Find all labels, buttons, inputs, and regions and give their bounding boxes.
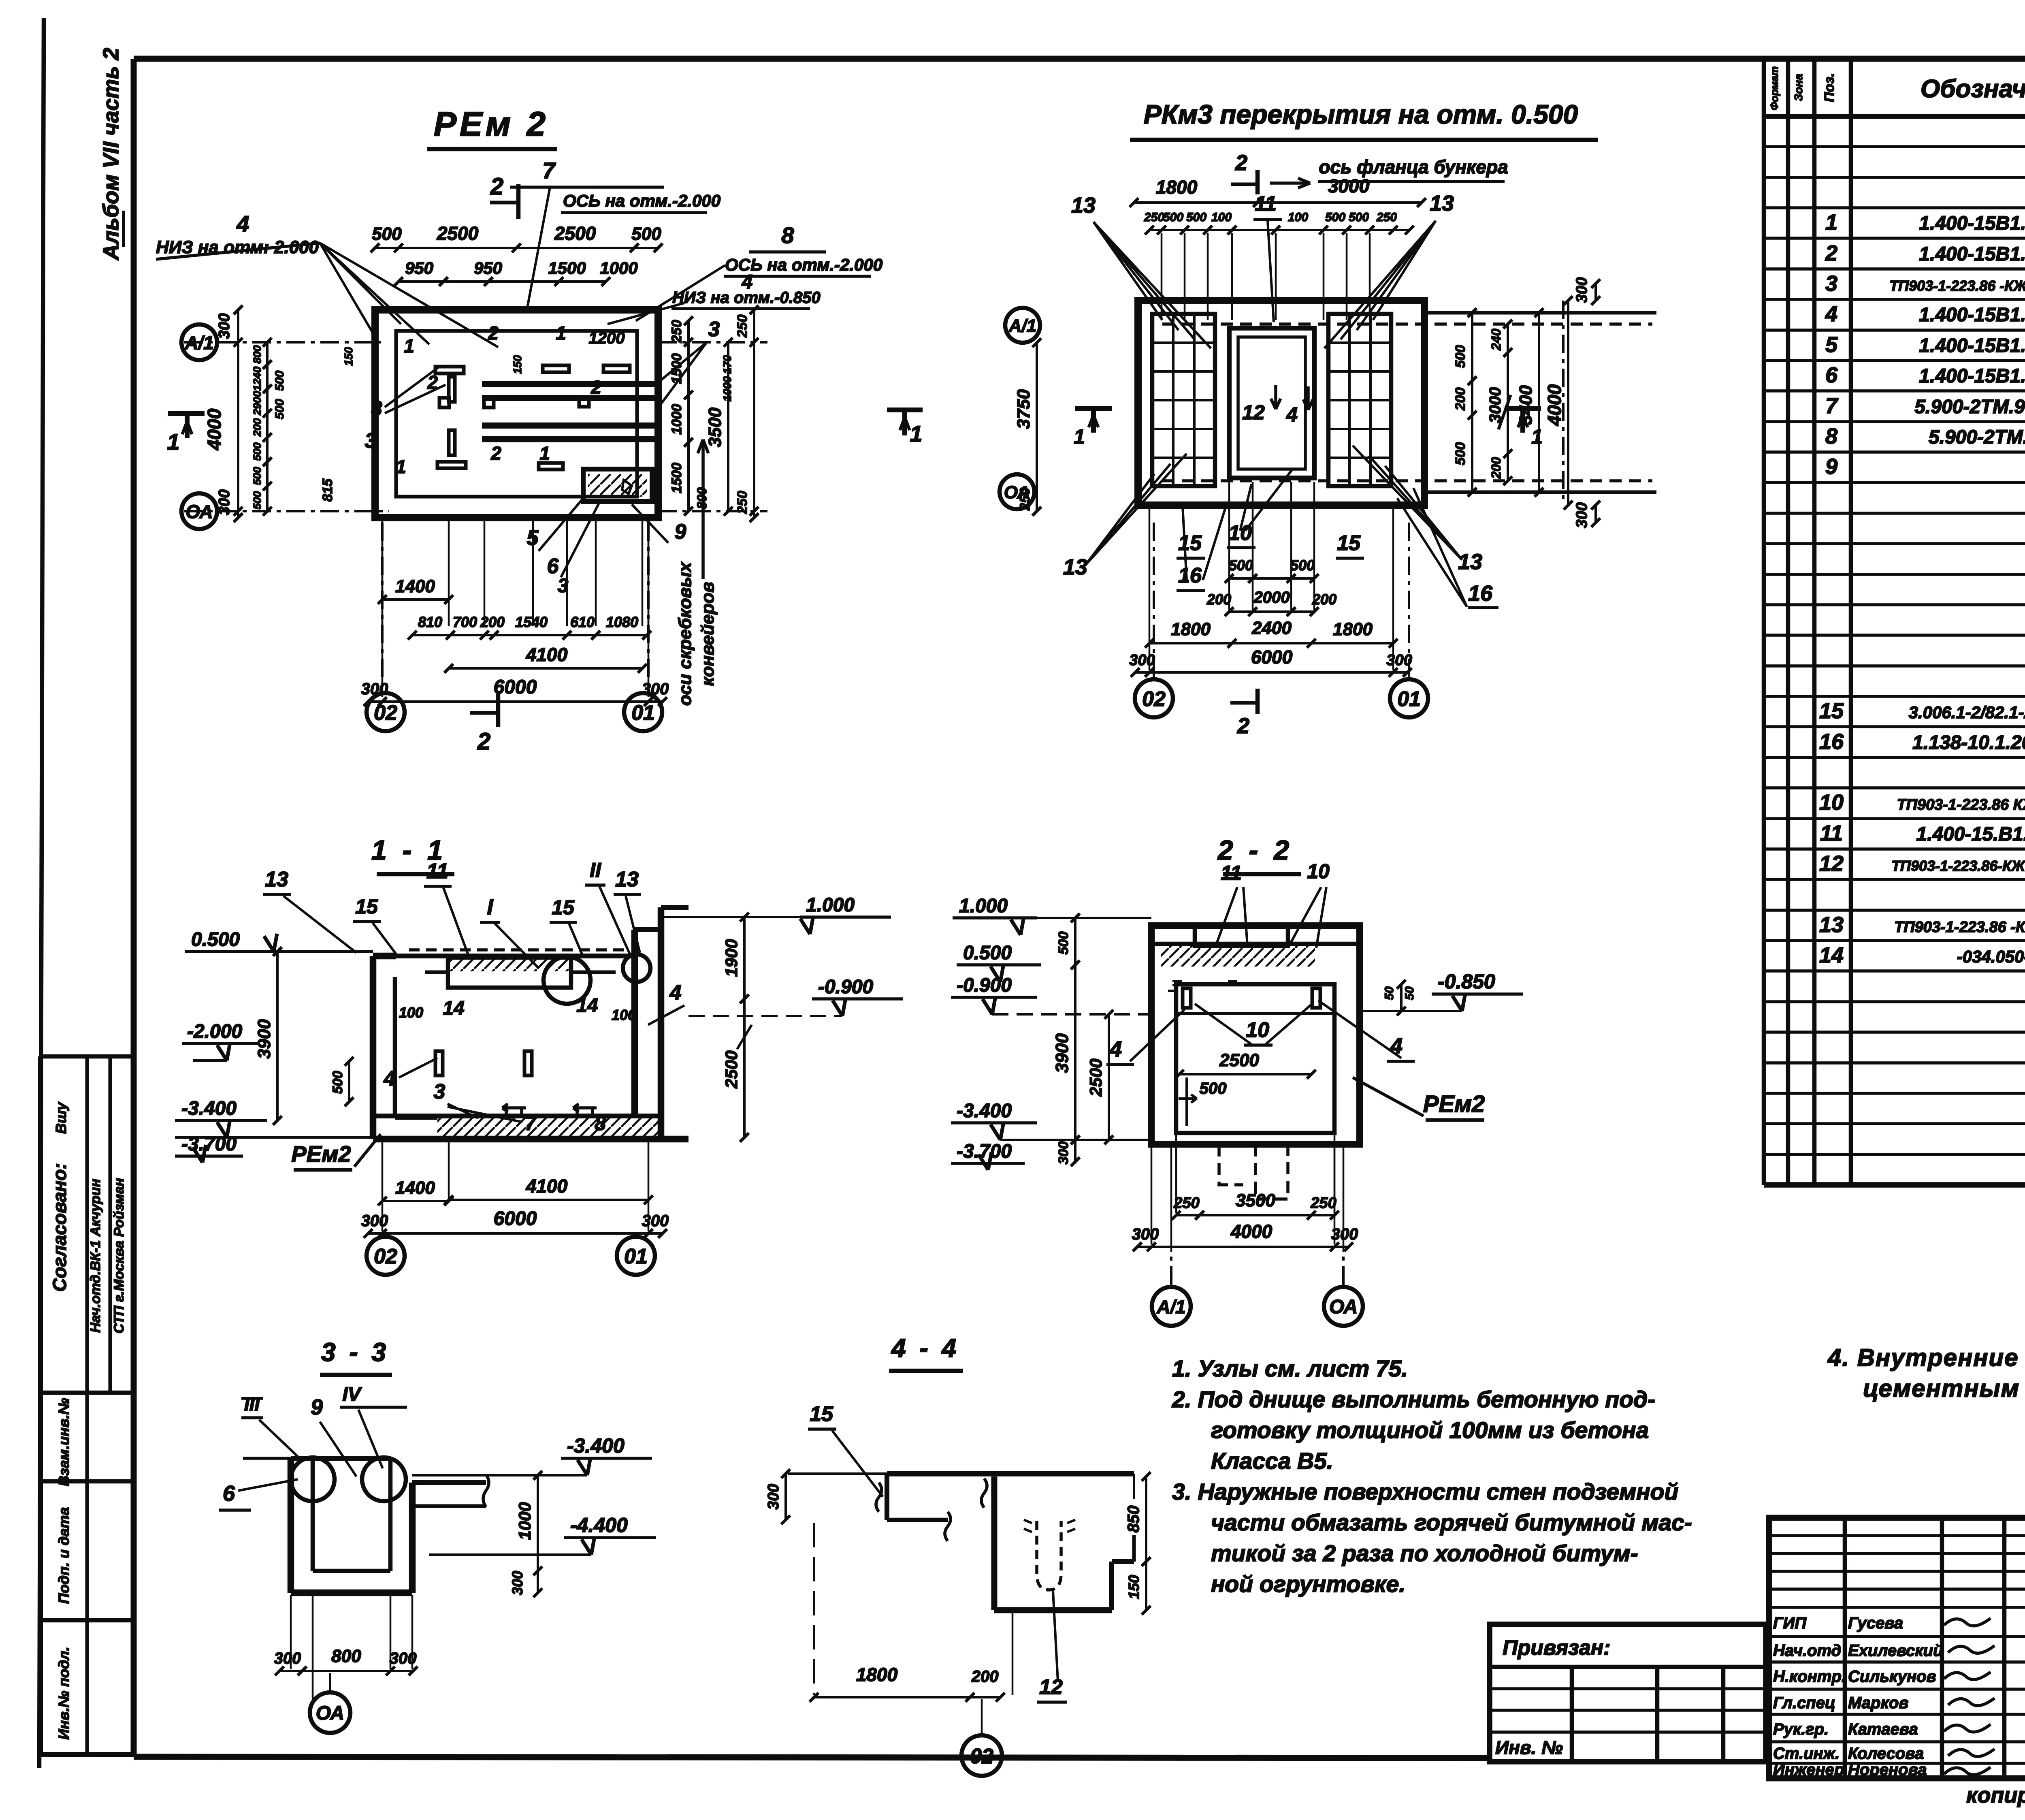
svg-text:3500: 3500 [705, 408, 725, 447]
svg-text:4: 4 [669, 981, 682, 1005]
svg-text:300: 300 [274, 1649, 301, 1667]
svg-text:РЕм2: РЕм2 [291, 1141, 351, 1167]
svg-text:НИЗ на отм.-0.850: НИЗ на отм.-0.850 [672, 289, 821, 307]
svg-text:200: 200 [971, 1668, 999, 1686]
svg-text:4100: 4100 [526, 1176, 568, 1197]
svg-text:7: 7 [542, 158, 556, 183]
svg-text:1800: 1800 [1156, 177, 1198, 198]
svg-text:1: 1 [396, 456, 406, 477]
svg-text:1800: 1800 [856, 1664, 898, 1685]
svg-text:13: 13 [1458, 550, 1482, 574]
svg-text:4: 4 [1286, 403, 1298, 426]
svg-text:3: 3 [708, 318, 720, 341]
svg-text:ГИП: ГИП [1773, 1614, 1807, 1632]
svg-text:850: 850 [1125, 1506, 1143, 1533]
svg-text:02: 02 [1142, 687, 1166, 711]
svg-text:13: 13 [1430, 191, 1454, 215]
svg-text:14: 14 [1819, 943, 1844, 967]
svg-text:ной огрунтовке.: ной огрунтовке. [1211, 1571, 1405, 1597]
svg-text:4: 4 [1825, 302, 1837, 326]
svg-text:Гусева: Гусева [1848, 1614, 1903, 1632]
svg-text:300: 300 [1573, 277, 1590, 303]
svg-text:Инв. №: Инв. № [1495, 1737, 1563, 1758]
svg-text:6000: 6000 [1251, 646, 1293, 668]
svg-text:815: 815 [320, 478, 335, 502]
svg-text:1540: 1540 [515, 614, 548, 630]
svg-text:2: 2 [590, 377, 601, 398]
svg-text:1.400-15В1.140-07: 1.400-15В1.140-07 [1919, 213, 2025, 234]
svg-text:10: 10 [1307, 860, 1330, 883]
svg-text:10: 10 [1819, 790, 1844, 815]
svg-text:15: 15 [1337, 531, 1361, 555]
svg-text:1000: 1000 [669, 404, 684, 435]
svg-text:250: 250 [1376, 211, 1397, 224]
svg-text:Инв.№ подл.: Инв.№ подл. [55, 1647, 72, 1739]
svg-text:300: 300 [1132, 1225, 1159, 1243]
svg-text:3 - 3: 3 - 3 [321, 1338, 389, 1367]
svg-text:-3.400: -3.400 [567, 1434, 625, 1457]
svg-text:Катаева: Катаева [1848, 1720, 1918, 1738]
svg-text:800: 800 [695, 487, 709, 509]
svg-text:3900: 3900 [1052, 1033, 1072, 1073]
svg-text:1800: 1800 [1333, 619, 1373, 639]
svg-text:200: 200 [1489, 457, 1503, 479]
svg-text:500: 500 [1056, 932, 1071, 955]
svg-text:02: 02 [374, 701, 397, 725]
svg-text:1.400-15В1.550-05: 1.400-15В1.550-05 [1919, 365, 2025, 387]
svg-text:810: 810 [418, 614, 442, 630]
svg-text:-2.000: -2.000 [187, 1021, 242, 1042]
svg-text:250: 250 [1173, 1195, 1199, 1212]
svg-text:3: 3 [1825, 271, 1837, 296]
svg-text:13: 13 [1071, 193, 1096, 218]
svg-text:500: 500 [1349, 211, 1369, 224]
svg-text:16: 16 [1468, 581, 1493, 606]
svg-text:4 - 4: 4 - 4 [891, 1334, 959, 1363]
svg-text:Согласовано:: Согласовано: [49, 1163, 70, 1292]
svg-text:150: 150 [511, 355, 524, 374]
svg-text:1500: 1500 [548, 258, 586, 277]
svg-text:2: 2 [490, 443, 501, 464]
svg-text:500: 500 [1453, 345, 1468, 368]
svg-text:СТП г.Москва Ройзман: СТП г.Москва Ройзман [111, 1178, 127, 1334]
svg-text:ОА: ОА [1329, 1296, 1358, 1318]
svg-text:Поз.: Поз. [1822, 73, 1837, 102]
svg-text:ОА: ОА [185, 501, 213, 522]
svg-text:2. Под днище выполнить бето: 2. Под днище выполнить бетонную под- [1172, 1387, 1655, 1412]
svg-text:-3.700: -3.700 [181, 1133, 237, 1155]
svg-text:11: 11 [1221, 862, 1242, 884]
svg-text:оси скребковых: оси скребковых [675, 561, 695, 706]
svg-text:100: 100 [399, 1004, 423, 1021]
svg-text:6000: 6000 [494, 1208, 537, 1229]
svg-text:300: 300 [509, 1571, 526, 1595]
svg-text:1: 1 [404, 335, 414, 356]
svg-text:02: 02 [970, 1745, 993, 1768]
svg-text:РЕм2: РЕм2 [1423, 1091, 1485, 1117]
svg-text:1.400-15В1.150-61: 1.400-15В1.150-61 [1919, 304, 2025, 326]
svg-text:1240: 1240 [251, 367, 263, 391]
svg-text:300: 300 [361, 1212, 388, 1230]
svg-text:300: 300 [1386, 652, 1412, 669]
svg-text:500: 500 [1163, 211, 1183, 224]
svg-text:-3.400: -3.400 [181, 1098, 237, 1119]
svg-text:15: 15 [1819, 699, 1844, 723]
svg-text:Ст.инж.: Ст.инж. [1773, 1745, 1840, 1762]
svg-text:3: 3 [365, 429, 377, 452]
svg-text:200: 200 [251, 418, 263, 437]
svg-text:11: 11 [1820, 821, 1843, 845]
svg-text:0.500: 0.500 [963, 942, 1012, 964]
svg-text:ОА: ОА [1004, 482, 1030, 502]
svg-text:500: 500 [251, 467, 263, 485]
svg-text:14: 14 [576, 995, 598, 1016]
svg-text:100: 100 [1288, 211, 1308, 224]
svg-text:1900: 1900 [722, 939, 741, 977]
svg-text:6: 6 [1825, 363, 1838, 387]
svg-text:Формат: Формат [1768, 66, 1780, 111]
svg-text:ОА: ОА [316, 1703, 344, 1724]
svg-text:Рук.гр.: Рук.гр. [1773, 1720, 1829, 1738]
svg-text:500: 500 [631, 224, 661, 244]
svg-text:3750: 3750 [1014, 389, 1034, 429]
svg-text:250: 250 [669, 320, 684, 344]
svg-text:3: 3 [558, 575, 569, 597]
svg-text:3000: 3000 [1486, 387, 1504, 423]
svg-text:Гл.спец: Гл.спец [1773, 1694, 1835, 1712]
svg-text:1080: 1080 [606, 614, 638, 630]
svg-text:6: 6 [547, 555, 559, 578]
svg-text:500: 500 [1200, 1080, 1227, 1097]
svg-text:13: 13 [615, 868, 639, 891]
svg-text:250: 250 [1310, 1195, 1336, 1212]
svg-text:1400: 1400 [395, 576, 435, 596]
svg-text:-0.900: -0.900 [818, 976, 873, 998]
svg-text:Привязан:: Привязан: [1503, 1636, 1610, 1660]
svg-text:12: 12 [1039, 1675, 1063, 1699]
svg-text:6: 6 [223, 1481, 235, 1506]
svg-text:Подп. и дата: Подп. и дата [55, 1507, 72, 1604]
svg-text:300: 300 [1129, 652, 1155, 669]
svg-text:Альбом VII часть 2: Альбом VII часть 2 [99, 48, 123, 261]
svg-text:4: 4 [236, 211, 249, 237]
svg-text:Норенова: Норенова [1848, 1761, 1927, 1779]
svg-text:4. Внутренние поверхности сте: 4. Внутренние поверхности стен затереть [1827, 1344, 2025, 1371]
svg-text:1: 1 [167, 429, 179, 454]
svg-text:4: 4 [1109, 1037, 1122, 1061]
svg-text:-4.400: -4.400 [570, 1514, 628, 1536]
svg-text:Нач.отд.ВК-1 Акчурин: Нач.отд.ВК-1 Акчурин [88, 1179, 103, 1333]
svg-text:15: 15 [552, 896, 575, 919]
svg-text:200: 200 [1453, 388, 1468, 411]
svg-text:950: 950 [405, 258, 433, 277]
svg-text:500: 500 [372, 224, 402, 244]
svg-text:4100: 4100 [526, 644, 568, 665]
svg-text:250: 250 [735, 315, 750, 338]
svg-text:ОСЬ на отм.-2.000: ОСЬ на отм.-2.000 [563, 191, 720, 210]
svg-text:5: 5 [1825, 333, 1838, 357]
svg-text:1: 1 [556, 322, 566, 344]
svg-text:500: 500 [1290, 557, 1315, 574]
svg-text:ось фланца бункера: ось фланца бункера [1319, 156, 1508, 177]
svg-text:6000: 6000 [494, 676, 537, 698]
svg-text:А/1: А/1 [1156, 1296, 1186, 1317]
svg-text:300: 300 [642, 1212, 669, 1230]
svg-text:950: 950 [474, 258, 502, 277]
svg-text:Обозначение: Обозначение [1921, 75, 2025, 103]
svg-text:4: 4 [384, 1067, 396, 1090]
svg-text:12: 12 [1819, 851, 1844, 876]
svg-text:250: 250 [735, 491, 750, 514]
svg-text:1: 1 [1825, 210, 1837, 235]
svg-text:3: 3 [434, 1080, 446, 1103]
svg-text:1.000: 1.000 [806, 894, 855, 916]
svg-text:Колесова: Колесова [1848, 1745, 1924, 1762]
svg-text:А/1: А/1 [184, 332, 214, 353]
svg-text:800: 800 [251, 345, 263, 363]
svg-text:2000: 2000 [1253, 589, 1290, 606]
svg-text:2500: 2500 [1219, 1050, 1259, 1070]
svg-text:9: 9 [311, 1395, 323, 1419]
svg-text:2500: 2500 [554, 223, 596, 244]
svg-text:1000: 1000 [515, 1502, 534, 1540]
svg-text:РЕм 2: РЕм 2 [434, 105, 549, 143]
svg-text:0.500: 0.500 [191, 929, 240, 950]
svg-text:01: 01 [1397, 687, 1421, 711]
svg-text:1. Узлы см. лист 75.: 1. Узлы см. лист 75. [1172, 1356, 1408, 1382]
svg-text:300: 300 [1573, 502, 1590, 528]
svg-text:8: 8 [1825, 424, 1837, 448]
svg-text:2: 2 [490, 173, 503, 200]
svg-text:50: 50 [1403, 986, 1416, 1000]
svg-text:части обмазать горячей биту: части обмазать горячей битумной мас- [1211, 1510, 1692, 1536]
svg-text:12: 12 [1242, 401, 1265, 424]
svg-text:НИЗ на отм: 2.000: НИЗ на отм: 2.000 [156, 237, 319, 257]
svg-text:200: 200 [1312, 591, 1336, 608]
svg-text:1200: 1200 [589, 329, 625, 347]
svg-text:2 - 2: 2 - 2 [1217, 835, 1293, 866]
svg-text:4000: 4000 [1230, 1221, 1273, 1242]
svg-text:9: 9 [1825, 454, 1837, 479]
svg-text:1.400-15.В1.550-08: 1.400-15.В1.550-08 [1916, 824, 2025, 845]
svg-text:16: 16 [1819, 730, 1844, 754]
svg-text:2: 2 [1825, 241, 1837, 265]
svg-text:ТП903-1-223.86 -КЖИ-027.040-02: ТП903-1-223.86 -КЖИ-027.040-02 [1889, 277, 2025, 294]
svg-text:-034.050-04: -034.050-04 [1957, 947, 2025, 966]
svg-text:50: 50 [1383, 986, 1396, 1000]
svg-text:1: 1 [1531, 425, 1543, 448]
svg-text:1: 1 [539, 443, 550, 464]
svg-text:150: 150 [342, 347, 355, 366]
svg-text:800: 800 [331, 1646, 361, 1666]
svg-text:1000: 1000 [600, 258, 637, 277]
svg-text:1.400-15В1.550-07: 1.400-15В1.550-07 [1919, 335, 2025, 356]
svg-text:А/1: А/1 [1008, 316, 1036, 336]
svg-text:5.900-2ТМ.90.00: 5.900-2ТМ.90.00 [1929, 427, 2025, 448]
svg-text:500: 500 [251, 491, 263, 509]
svg-text:3. Наружные поверхности стен: 3. Наружные поверхности стен подземной [1172, 1479, 1678, 1505]
svg-text:ТП903-1-223.86 -КЖИ-034.050: ТП903-1-223.86 -КЖИ-034.050 [1894, 919, 2025, 936]
svg-text:170: 170 [721, 355, 733, 374]
svg-text:500: 500 [330, 1071, 345, 1094]
svg-text:Н.контр.: Н.контр. [1773, 1668, 1846, 1686]
svg-text:1400: 1400 [395, 1178, 435, 1198]
svg-text:Вшу: Вшу [53, 1101, 69, 1134]
svg-text:1800: 1800 [1171, 619, 1211, 639]
svg-text:500: 500 [273, 399, 286, 419]
svg-text:14: 14 [443, 998, 464, 1019]
svg-text:Нач.отд: Нач.отд [1773, 1642, 1841, 1660]
svg-text:II: II [590, 859, 601, 881]
svg-text:4000: 4000 [204, 408, 225, 450]
svg-text:Взам.инв.№: Взам.инв.№ [55, 1398, 72, 1486]
svg-text:IV: IV [342, 1384, 362, 1405]
svg-text:Силькунов: Силькунов [1848, 1668, 1936, 1686]
svg-text:3: 3 [371, 397, 382, 420]
svg-text:тикой за 2 раза по холодной: тикой за 2 раза по холодной битум- [1211, 1540, 1638, 1566]
svg-text:200: 200 [1206, 591, 1231, 608]
svg-text:300: 300 [216, 313, 233, 339]
svg-text:2900: 2900 [251, 391, 263, 416]
svg-text:8: 8 [595, 1112, 606, 1135]
svg-text:5: 5 [527, 526, 539, 550]
svg-text:2500: 2500 [437, 223, 479, 244]
svg-text:7: 7 [525, 1112, 537, 1135]
svg-text:700: 700 [453, 614, 477, 630]
svg-text:10: 10 [1246, 1018, 1269, 1042]
svg-text:-3.700: -3.700 [957, 1141, 1012, 1162]
svg-text:15: 15 [810, 1402, 833, 1426]
svg-text:02: 02 [374, 1245, 397, 1268]
svg-text:цементным раствором.: цементным раствором. [1863, 1375, 2025, 1402]
svg-text:01: 01 [624, 1245, 648, 1268]
svg-text:2: 2 [1237, 714, 1249, 738]
svg-text:13: 13 [1063, 555, 1087, 579]
svg-text:3900: 3900 [254, 1019, 274, 1059]
svg-text:-0.850: -0.850 [1438, 970, 1495, 993]
svg-text:300: 300 [1056, 1142, 1071, 1165]
svg-text:610: 610 [570, 614, 595, 630]
svg-text:2: 2 [488, 322, 499, 344]
svg-text:Марков: Марков [1848, 1694, 1908, 1712]
svg-text:4000: 4000 [1544, 384, 1565, 426]
svg-text:7: 7 [1825, 394, 1839, 418]
svg-text:15: 15 [355, 895, 378, 918]
svg-text:1000: 1000 [721, 376, 733, 401]
svg-text:16: 16 [1178, 564, 1202, 587]
svg-text:5.900-2ТМ.90.00-01: 5.900-2ТМ.90.00-01 [1914, 396, 2025, 418]
svg-text:конвейеров: конвейеров [698, 582, 718, 686]
svg-text:13: 13 [265, 868, 288, 891]
svg-text:1.400-15В1.120-56: 1.400-15В1.120-56 [1919, 243, 2025, 265]
svg-text:1.000: 1.000 [959, 895, 1008, 917]
svg-text:готовку толщиной 100мм из: готовку толщиной 100мм из бетона [1211, 1417, 1649, 1443]
svg-text:2500: 2500 [1086, 1058, 1105, 1097]
svg-text:250: 250 [1144, 211, 1164, 224]
svg-text:3500: 3500 [1236, 1191, 1275, 1210]
svg-text:ТП903-1-223.86-КЖИ-028.040-02: ТП903-1-223.86-КЖИ-028.040-02 [1891, 858, 2025, 874]
svg-text:1.138-10.1.20000-02: 1.138-10.1.20000-02 [1912, 732, 2025, 753]
svg-text:I: I [487, 895, 493, 919]
svg-text:1: 1 [910, 421, 922, 446]
svg-text:3000: 3000 [1328, 175, 1370, 196]
svg-text:Инженер: Инженер [1773, 1761, 1844, 1779]
svg-text:РКм3 перекрытия на отм. 0.500: РКм3 перекрытия на отм. 0.500 [1144, 99, 1578, 129]
svg-text:240: 240 [1489, 329, 1503, 351]
svg-text:13: 13 [1819, 913, 1844, 937]
svg-text:8: 8 [781, 222, 794, 248]
svg-text:500: 500 [1229, 557, 1253, 574]
svg-text:500: 500 [1325, 211, 1345, 224]
svg-text:Ехилевский: Ехилевский [1848, 1642, 1943, 1660]
svg-text:-0.900: -0.900 [957, 975, 1012, 996]
svg-text:300: 300 [765, 1484, 782, 1509]
svg-text:15: 15 [1178, 531, 1202, 555]
svg-text:копир.: копир. [1966, 1783, 2025, 1807]
svg-text:11: 11 [426, 860, 448, 883]
svg-text:2400: 2400 [1251, 618, 1292, 638]
svg-text:100: 100 [1211, 211, 1232, 224]
svg-text:Класса В5.: Класса В5. [1211, 1448, 1333, 1474]
svg-text:2: 2 [1235, 151, 1247, 175]
svg-text:III: III [244, 1393, 260, 1415]
svg-text:1500: 1500 [669, 463, 684, 493]
svg-text:3.006.1-2/82.1-2-1.0-045: 3.006.1-2/82.1-2-1.0-045 [1909, 703, 2025, 722]
svg-text:500: 500 [1186, 211, 1206, 224]
svg-text:150: 150 [1125, 1575, 1142, 1599]
svg-text:100: 100 [612, 1007, 636, 1023]
svg-text:ТП903-1-223.86 КЖИ-028.040: ТП903-1-223.86 КЖИ-028.040 [1897, 796, 2025, 813]
svg-text:9: 9 [675, 520, 686, 544]
svg-text:500: 500 [251, 442, 263, 461]
svg-text:01: 01 [631, 701, 655, 725]
svg-text:1: 1 [1074, 425, 1085, 448]
svg-text:500: 500 [1453, 442, 1468, 465]
svg-text:500: 500 [273, 371, 286, 391]
svg-text:-3.400: -3.400 [957, 1100, 1012, 1122]
svg-text:3400: 3400 [1516, 385, 1536, 425]
svg-text:2: 2 [477, 728, 490, 755]
svg-text:2500: 2500 [722, 1050, 741, 1088]
svg-text:Зона: Зона [1792, 74, 1805, 101]
